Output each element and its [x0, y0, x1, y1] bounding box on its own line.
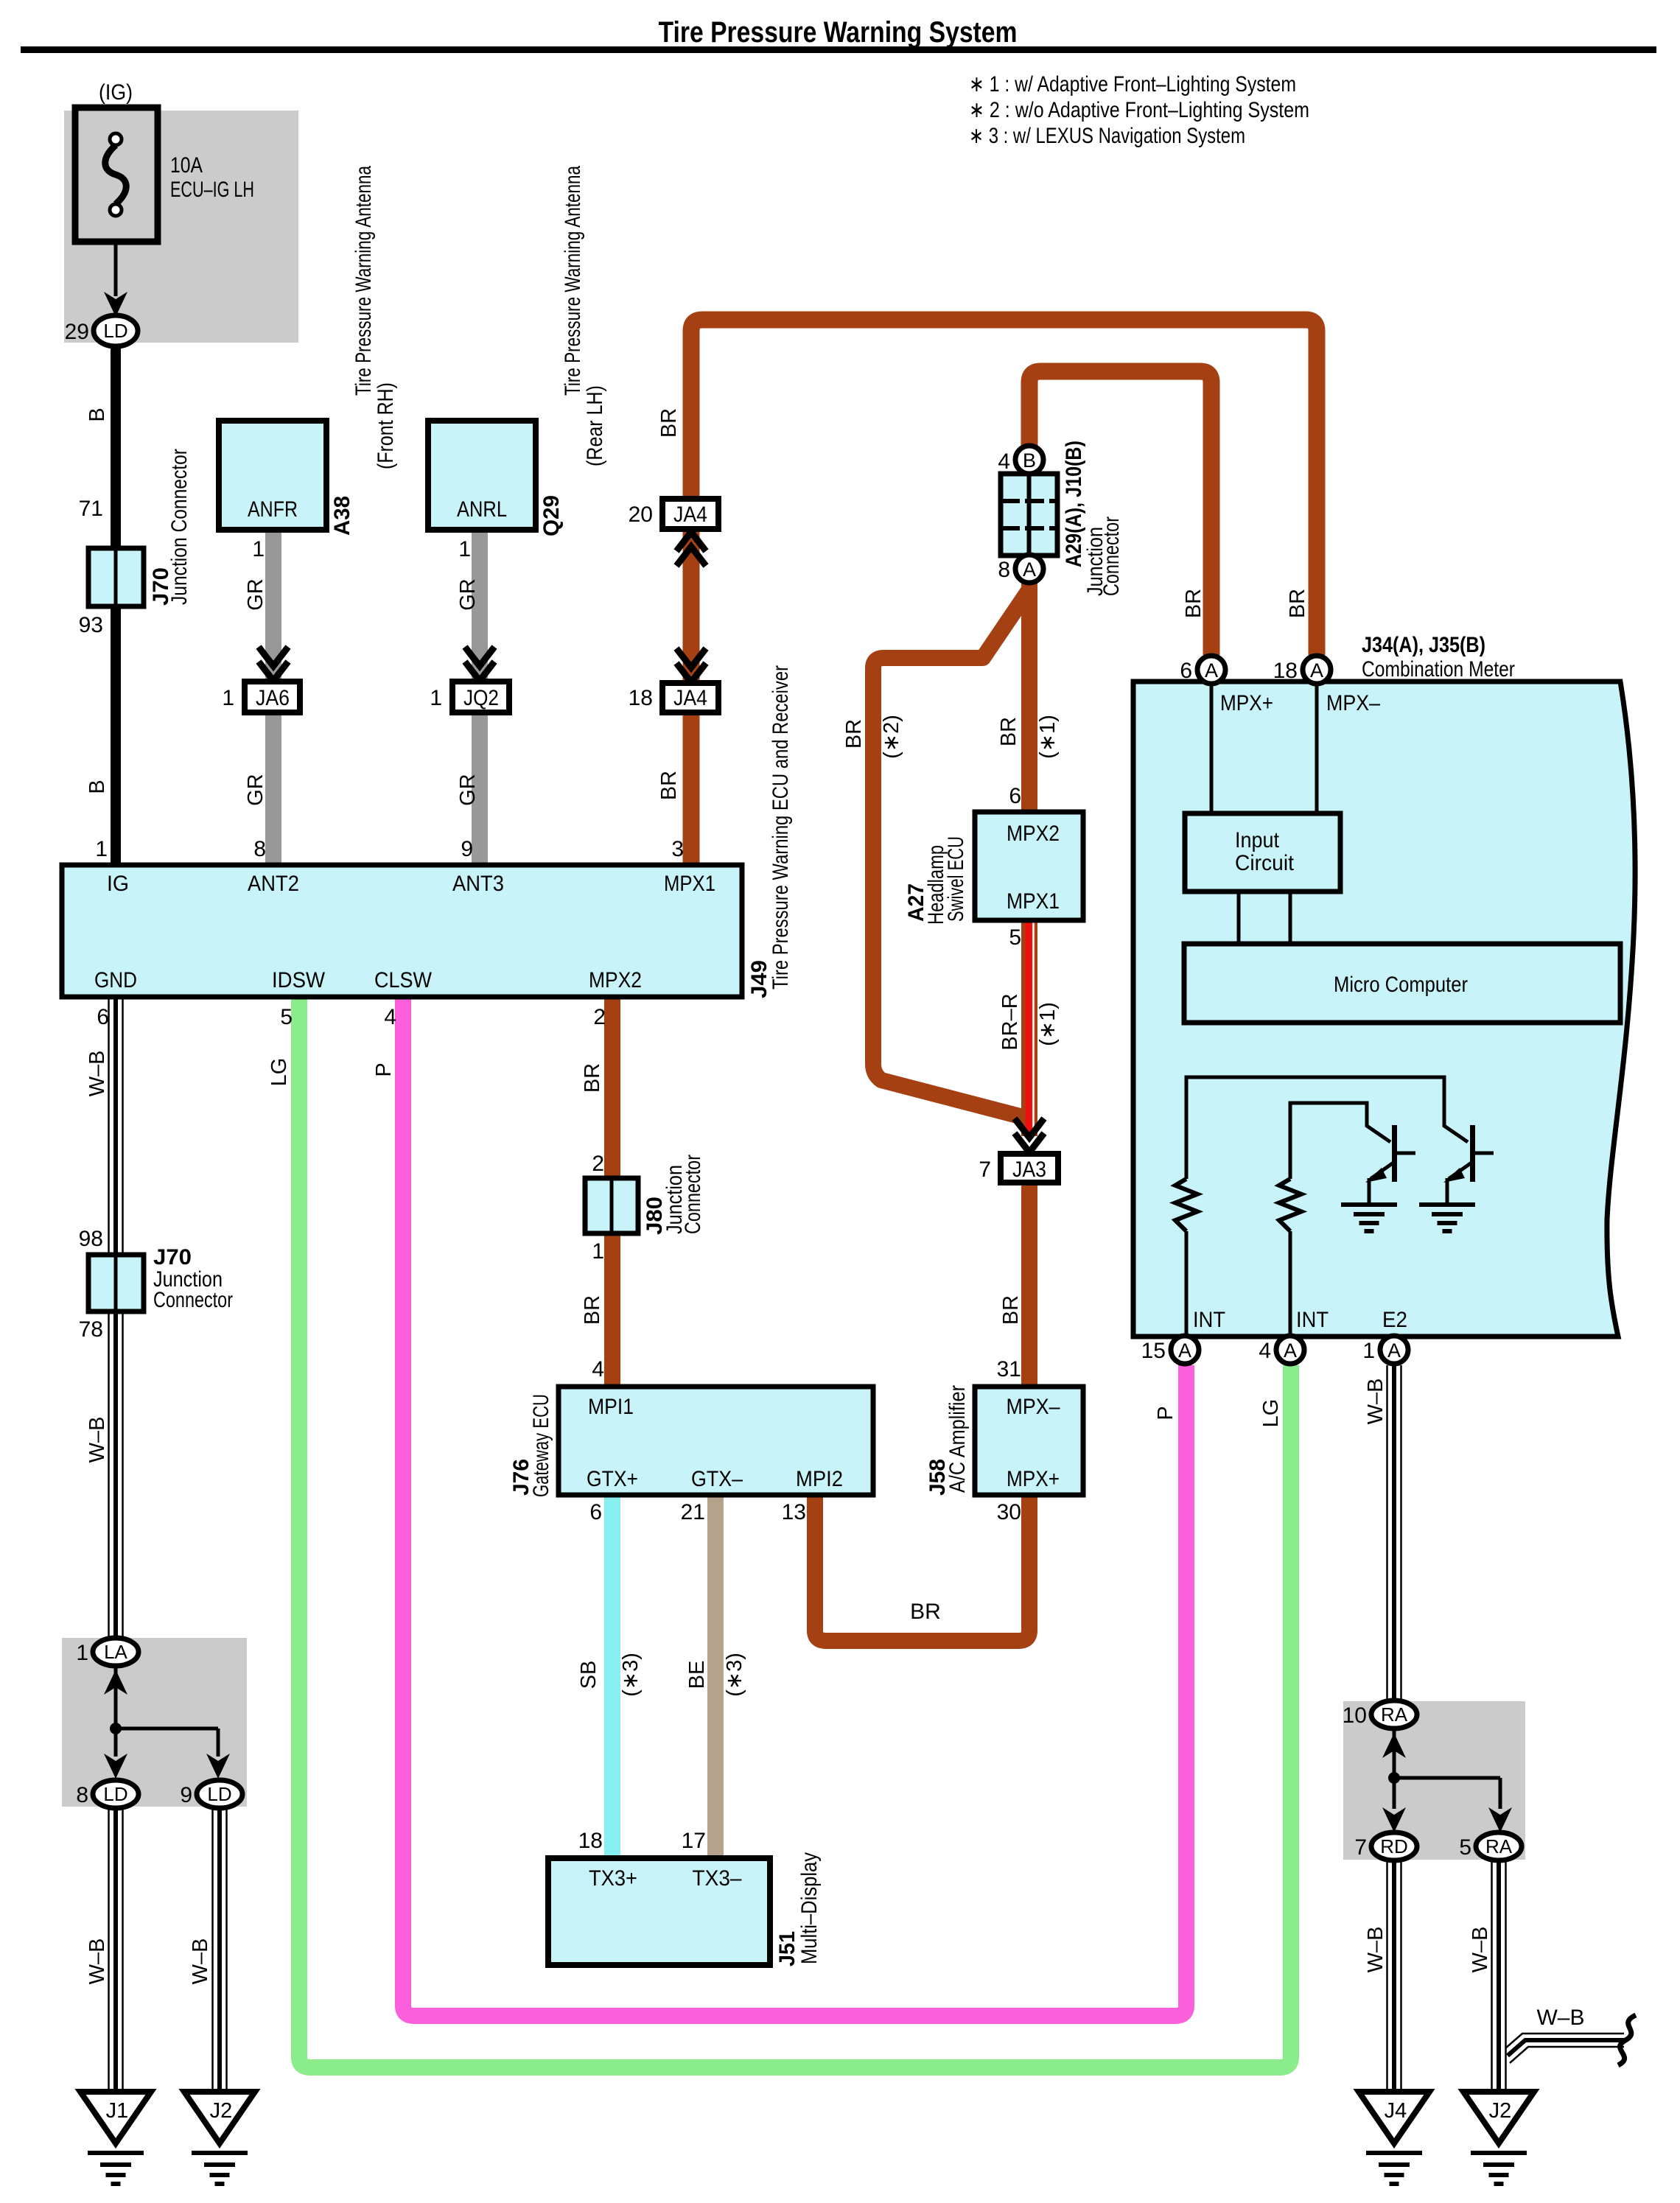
- ground symbol under J4: [1366, 2151, 1422, 2155]
- svg-text:(IG): (IG): [99, 80, 133, 105]
- svg-text:1: 1: [252, 537, 265, 561]
- svg-text:E2: E2: [1382, 1308, 1407, 1332]
- arrow down into RA5: [1488, 1807, 1512, 1832]
- svg-text:8: 8: [76, 1783, 88, 1807]
- svg-text:J34(A), J35(B): J34(A), J35(B): [1362, 633, 1485, 657]
- junction chevrons out of JA4 20: [676, 547, 706, 566]
- svg-text:30: 30: [997, 1500, 1021, 1524]
- svg-text:GTX–: GTX–: [691, 1467, 743, 1491]
- transistor Q2 (right): [1470, 1125, 1475, 1182]
- svg-text:MPX+: MPX+: [1220, 691, 1273, 715]
- splice terminal LD9 oval: [197, 1780, 242, 1808]
- svg-text:W–B: W–B: [85, 1417, 109, 1463]
- svg-text:TX3+: TX3+: [589, 1866, 637, 1891]
- splice line down to RA5: [1499, 1778, 1502, 1809]
- svg-text:Connector: Connector: [153, 1288, 233, 1312]
- connector JA4 pin 18 box: [662, 683, 718, 712]
- junction connector J70 upper box: [88, 548, 144, 606]
- svg-text:6: 6: [589, 1500, 602, 1524]
- svg-text:GR: GR: [244, 774, 267, 806]
- svg-text:1: 1: [458, 537, 471, 561]
- svg-text:1: 1: [1362, 1339, 1375, 1363]
- svg-text:∗ 2 : w/o Adaptive Front–Light: ∗ 2 : w/o Adaptive Front–Lighting System: [969, 98, 1309, 122]
- svg-text:Tire Pressure Warning Antenna: Tire Pressure Warning Antenna: [351, 166, 376, 396]
- svg-text:(∗3): (∗3): [619, 1653, 643, 1697]
- arrow up below RA10: [1382, 1733, 1406, 1758]
- svg-text:4: 4: [1259, 1339, 1271, 1363]
- svg-text:A: A: [1310, 659, 1323, 682]
- svg-text:31: 31: [997, 1357, 1021, 1381]
- micro computer box: [1184, 944, 1620, 1023]
- wire SB (*3) J76 GTX+ to J51 TX3+: [604, 1495, 620, 1858]
- wire BR-R (*1) from A27 MPX1 pin 5 to JA3: [1021, 920, 1037, 1136]
- resistor R2 (INT pull): [1279, 1179, 1301, 1231]
- svg-text:P: P: [372, 1062, 396, 1076]
- svg-text:BR: BR: [1286, 589, 1309, 618]
- ground inside meter (Q2 emitter): [1419, 1202, 1475, 1207]
- svg-text:∗ 3 : w/ LEXUS Navigation Syst: ∗ 3 : w/ LEXUS Navigation System: [969, 124, 1245, 148]
- ground symbol under J2 right: [1471, 2151, 1527, 2155]
- ECU J49 Tire Pressure Warning ECU and Receiver box: [62, 865, 742, 997]
- svg-text:J4: J4: [1385, 2099, 1407, 2123]
- svg-text:MPX1: MPX1: [664, 872, 715, 896]
- svg-text:W–B: W–B: [1364, 1379, 1387, 1425]
- svg-text:3: 3: [671, 837, 684, 861]
- wire W-B stub branch to right with break: [1505, 2034, 1624, 2048]
- svg-text:MPX+: MPX+: [1007, 1467, 1060, 1491]
- svg-text:INT: INT: [1193, 1308, 1225, 1332]
- svg-text:J70: J70: [153, 1245, 192, 1269]
- wire GR antenna ANRL to J49 ANT3: [472, 530, 488, 865]
- ground point J2 triangle: [184, 2092, 255, 2143]
- wire W-B splice LD8 to ground J1: [108, 1807, 110, 2093]
- svg-text:JA4: JA4: [673, 502, 707, 527]
- connector JQ2 box: [452, 682, 509, 712]
- svg-text:GR: GR: [456, 578, 480, 611]
- wire W-B splice LD9 to ground J2: [211, 1807, 214, 2093]
- splice junction node dot right: [1388, 1772, 1400, 1784]
- svg-text:RA: RA: [1381, 1703, 1408, 1726]
- junction connector A29(A) J10(B) grid box: [1001, 474, 1057, 556]
- wire BR J49 MPX2 pin 2 to J76 MPI1 pin 4: [604, 997, 620, 1387]
- junction connector J80 box: [585, 1178, 638, 1233]
- meter internal lead MPX- to input circuit: [1315, 682, 1319, 813]
- wire BR JA3 to J58 MPX- pin 31: [1021, 1183, 1037, 1387]
- splice line down to LD8: [114, 1729, 118, 1757]
- ground point J1 triangle: [80, 2092, 151, 2143]
- svg-text:∗ 1 : w/ Adaptive Front–Lighti: ∗ 1 : w/ Adaptive Front–Lighting System: [969, 72, 1296, 97]
- svg-text:JA3: JA3: [1012, 1157, 1046, 1182]
- wire W-B J49 GND to splice LA: [108, 997, 110, 1640]
- svg-text:IG: IG: [107, 872, 129, 896]
- svg-text:BR–R: BR–R: [998, 993, 1022, 1050]
- arrow up into LA: [104, 1670, 127, 1695]
- ground symbol under J2: [192, 2151, 248, 2155]
- svg-text:Combination Meter: Combination Meter: [1362, 657, 1515, 682]
- splice line down to LD9: [217, 1729, 220, 1757]
- arrow into terminal 29 LD: [104, 292, 127, 317]
- svg-text:J51: J51: [775, 1931, 799, 1966]
- meter pin circle A1: [1380, 1336, 1408, 1364]
- wire P J49 CLSW to combination meter INT pin 15: [403, 997, 1186, 2016]
- svg-text:18: 18: [629, 686, 653, 710]
- svg-text:(∗1): (∗1): [1036, 1002, 1060, 1046]
- svg-text:BR: BR: [657, 408, 681, 438]
- wire W-B splice RD7 to ground J4: [1386, 1860, 1388, 2093]
- input circuit box: [1185, 813, 1340, 892]
- svg-text:18: 18: [578, 1829, 603, 1853]
- ECU A27 Headlamp Swivel ECU box: [975, 812, 1083, 920]
- title underline rule: [21, 46, 1656, 53]
- svg-text:BR: BR: [657, 771, 681, 800]
- wire BR (*2) bypass around A27: [873, 589, 1029, 1118]
- svg-text:10: 10: [1343, 1703, 1367, 1728]
- svg-text:BR: BR: [581, 1063, 604, 1093]
- junction connector A circle pin 8: [1015, 555, 1043, 583]
- svg-text:A: A: [1023, 558, 1036, 581]
- svg-text:1: 1: [95, 837, 108, 861]
- svg-text:BE: BE: [685, 1661, 709, 1689]
- junction chevrons into JA3: [1015, 1118, 1044, 1138]
- svg-text:Tire Pressure Warning ECU and: Tire Pressure Warning ECU and Receiver: [769, 665, 793, 990]
- meter internal wire resistor2 to INT: [1289, 1231, 1292, 1337]
- svg-text:BR: BR: [842, 719, 866, 749]
- svg-text:ANRL: ANRL: [457, 497, 507, 522]
- meter pin circle A6: [1197, 656, 1225, 684]
- splice terminal RD7 oval: [1371, 1832, 1417, 1860]
- svg-text:6: 6: [1009, 784, 1021, 808]
- svg-text:17: 17: [682, 1829, 706, 1853]
- wire B black from fuse LD to J49 IG: [111, 345, 121, 865]
- svg-text:29: 29: [65, 320, 89, 344]
- svg-text:Tire Pressure Warning System: Tire Pressure Warning System: [659, 16, 1018, 49]
- svg-text:Connector: Connector: [1099, 516, 1124, 596]
- splice junction node dot: [110, 1723, 122, 1734]
- svg-text:A: A: [1178, 1339, 1191, 1362]
- wire from fuse to terminal 29: [114, 242, 118, 296]
- svg-text:9: 9: [180, 1783, 192, 1807]
- meter pin circle A4: [1276, 1336, 1304, 1364]
- svg-text:5: 5: [1459, 1835, 1471, 1860]
- svg-text:6: 6: [97, 1005, 109, 1029]
- svg-text:93: 93: [79, 613, 103, 637]
- svg-text:BR: BR: [999, 1295, 1023, 1325]
- svg-text:A/C Amplifier: A/C Amplifier: [945, 1385, 970, 1493]
- svg-text:Micro Computer: Micro Computer: [1334, 973, 1468, 997]
- wire GR antenna ANFR to J49 ANT2: [265, 530, 281, 865]
- svg-text:MPX–: MPX–: [1007, 1395, 1060, 1419]
- junction chevrons into JQ2: [465, 647, 494, 666]
- svg-text:1: 1: [222, 686, 234, 710]
- svg-text:(Rear LH): (Rear LH): [583, 385, 607, 466]
- svg-text:TX3–: TX3–: [693, 1866, 742, 1891]
- svg-text:1: 1: [430, 686, 442, 710]
- svg-text:1: 1: [592, 1239, 604, 1264]
- svg-text:LA: LA: [104, 1641, 127, 1663]
- ECU J58 A/C Amplifier box: [975, 1387, 1083, 1495]
- svg-text:5: 5: [1009, 925, 1021, 950]
- svg-text:Gateway ECU: Gateway ECU: [529, 1394, 553, 1497]
- svg-text:6: 6: [1180, 659, 1192, 683]
- display J51 Multi-Display box: [548, 1858, 770, 1965]
- svg-text:GND: GND: [94, 968, 137, 992]
- meter internal lead MPX+ to input circuit: [1210, 682, 1214, 813]
- svg-text:W–B: W–B: [85, 1938, 109, 1985]
- left ground-splice block background (grey): [62, 1638, 247, 1807]
- ground inside meter (Q1 emitter): [1341, 1202, 1397, 1207]
- svg-text:Input: Input: [1235, 828, 1280, 852]
- svg-text:A38: A38: [330, 496, 354, 536]
- svg-text:BR: BR: [910, 1600, 941, 1624]
- splice terminal RA10 oval: [1371, 1701, 1417, 1729]
- svg-text:21: 21: [681, 1500, 705, 1524]
- svg-text:15: 15: [1141, 1339, 1166, 1363]
- arrow down into RD7: [1382, 1807, 1406, 1832]
- svg-text:INT: INT: [1296, 1308, 1329, 1332]
- svg-text:7: 7: [979, 1157, 991, 1182]
- svg-text:2: 2: [592, 1152, 604, 1176]
- svg-text:B: B: [85, 407, 109, 421]
- svg-text:A: A: [1284, 1339, 1297, 1362]
- meter internal wire resistor1 to INT: [1185, 1231, 1189, 1337]
- svg-text:18: 18: [1273, 659, 1298, 683]
- svg-text:B: B: [85, 780, 109, 794]
- fuse block background (grey): [64, 111, 298, 343]
- junction connector B circle pin 4: [1015, 446, 1043, 474]
- wire BE (*3) J76 GTX- to J51 TX3-: [707, 1495, 724, 1858]
- svg-text:Junction Connector: Junction Connector: [167, 449, 192, 605]
- arrow down into LD9: [206, 1754, 230, 1779]
- svg-text:MPX2: MPX2: [1007, 822, 1060, 846]
- svg-text:78: 78: [79, 1317, 103, 1342]
- antenna A38 ANFR box: [219, 421, 326, 530]
- svg-text:GR: GR: [244, 578, 267, 611]
- fuse 10A ECU-IG LH symbol: [75, 108, 158, 242]
- wire W-B meter E2 to splice RA10: [1386, 1365, 1388, 1703]
- svg-text:Connector: Connector: [681, 1155, 705, 1234]
- svg-text:4: 4: [998, 449, 1010, 474]
- splice line junction to RA5 branch: [1394, 1776, 1500, 1780]
- svg-text:RD: RD: [1380, 1835, 1408, 1857]
- wire W-B splice RA5 to ground J2 right: [1491, 1860, 1493, 2093]
- svg-text:13: 13: [782, 1500, 806, 1524]
- arrow down into LD8: [104, 1754, 127, 1779]
- svg-text:7: 7: [1354, 1835, 1367, 1860]
- svg-text:Tire Pressure Warning Antenna: Tire Pressure Warning Antenna: [561, 166, 585, 396]
- svg-text:(Front RH): (Front RH): [374, 382, 398, 469]
- splice terminal LA oval: [93, 1638, 139, 1666]
- svg-text:Swivel ECU: Swivel ECU: [944, 836, 968, 922]
- svg-text:A: A: [1205, 659, 1218, 682]
- splice terminal LD8 oval: [93, 1780, 139, 1808]
- wire BR (*1) from A29 pin 8A down to A27 MPX2 pin 6: [1021, 582, 1037, 812]
- meter internal wire to resistor 2 and left transistor: [1290, 1103, 1390, 1179]
- terminal LD oval (fuse block pin 29): [94, 315, 138, 346]
- wire BR J58 MPX+ pin 30 to J76 MPI2 pin 13: [815, 1495, 1029, 1641]
- wire LG J49 IDSW to combination meter INT pin 4: [299, 997, 1291, 2067]
- svg-text:BR: BR: [1182, 589, 1205, 618]
- wire BR J49 MPX1 up over to combination meter pin 18: [691, 320, 1317, 865]
- svg-text:8: 8: [998, 558, 1010, 582]
- svg-text:LG: LG: [267, 1058, 291, 1087]
- svg-text:B: B: [1023, 449, 1036, 472]
- splice line RA10 to junction: [1393, 1728, 1396, 1778]
- svg-text:(∗2): (∗2): [880, 715, 903, 759]
- svg-text:GTX+: GTX+: [587, 1467, 638, 1491]
- svg-text:MPX2: MPX2: [589, 968, 642, 992]
- splice line LA to junction: [114, 1666, 118, 1729]
- svg-text:W–B: W–B: [1469, 1927, 1492, 1973]
- svg-text:10A: 10A: [170, 153, 203, 178]
- svg-text:RA: RA: [1485, 1835, 1513, 1857]
- svg-text:MPI1: MPI1: [588, 1395, 634, 1419]
- svg-text:(∗3): (∗3): [723, 1653, 746, 1697]
- svg-text:LD: LD: [207, 1783, 231, 1805]
- input to micro computer leads: [1237, 892, 1241, 944]
- antenna Q29 ANRL box: [428, 421, 536, 530]
- ECU J76 Gateway ECU box: [559, 1387, 873, 1495]
- svg-text:JA4: JA4: [673, 686, 707, 710]
- transistor Q1 (left): [1392, 1125, 1397, 1182]
- svg-text:(∗1): (∗1): [1036, 715, 1060, 759]
- meter pin circle A15: [1171, 1336, 1199, 1364]
- svg-text:5: 5: [280, 1005, 293, 1029]
- svg-text:9: 9: [461, 837, 473, 861]
- ground point J4 triangle: [1359, 2092, 1429, 2143]
- svg-text:W–B: W–B: [85, 1051, 109, 1097]
- svg-text:MPI2: MPI2: [796, 1467, 843, 1491]
- svg-text:W–B: W–B: [1364, 1927, 1387, 1973]
- svg-text:2: 2: [593, 1005, 606, 1029]
- connector JA4 pin 20 box: [662, 499, 718, 529]
- svg-text:W–B: W–B: [1536, 2006, 1584, 2030]
- svg-text:8: 8: [253, 837, 266, 861]
- wire BR junction connector B branch to combination meter pin 6: [1029, 371, 1211, 655]
- splice line junction to LD9 branch: [116, 1727, 218, 1731]
- junction chevrons into JA6: [259, 647, 288, 666]
- svg-text:MPX1: MPX1: [1007, 889, 1060, 914]
- svg-text:98: 98: [79, 1227, 103, 1251]
- svg-text:LG: LG: [1259, 1399, 1283, 1428]
- svg-text:SB: SB: [577, 1661, 601, 1689]
- svg-text:20: 20: [629, 502, 653, 527]
- svg-text:A: A: [1387, 1339, 1401, 1362]
- meter pin circle A18: [1303, 656, 1331, 684]
- ground point J2 right triangle: [1463, 2092, 1534, 2143]
- svg-text:CLSW: CLSW: [374, 968, 433, 992]
- svg-text:MPX–: MPX–: [1326, 691, 1380, 715]
- junction chevrons into JA4 18: [676, 648, 706, 668]
- svg-text:J2: J2: [210, 2099, 233, 2123]
- resistor R1 (INT pull): [1175, 1179, 1197, 1231]
- svg-text:ANT2: ANT2: [248, 872, 299, 896]
- svg-text:4: 4: [384, 1005, 396, 1029]
- svg-text:JA6: JA6: [256, 686, 290, 710]
- svg-text:LD: LD: [103, 1783, 127, 1805]
- ground symbol under J1: [88, 2151, 144, 2155]
- svg-text:LD: LD: [103, 320, 127, 342]
- splice terminal RA5 oval: [1476, 1832, 1522, 1860]
- svg-text:ECU–IG LH: ECU–IG LH: [170, 178, 254, 202]
- svg-text:Circuit: Circuit: [1235, 851, 1295, 875]
- svg-text:Multi–Display: Multi–Display: [797, 1852, 822, 1964]
- svg-text:4: 4: [592, 1357, 604, 1381]
- connector JA6 box: [245, 682, 300, 712]
- connector JA3 box: [1001, 1154, 1058, 1183]
- svg-text:BR: BR: [581, 1295, 604, 1325]
- splice line down to RD7: [1393, 1778, 1396, 1809]
- svg-text:W–B: W–B: [189, 1938, 212, 1985]
- junction connector J70 lower box: [88, 1255, 144, 1311]
- svg-text:J2: J2: [1489, 2099, 1512, 2123]
- svg-text:JQ2: JQ2: [463, 686, 499, 710]
- combination meter J34(A) J35(B) box: [1133, 682, 1635, 1337]
- svg-text:1: 1: [76, 1641, 88, 1665]
- svg-text:Q29: Q29: [539, 495, 564, 536]
- svg-text:IDSW: IDSW: [272, 968, 326, 992]
- meter internal wire to resistor 1 and right transistor: [1186, 1077, 1468, 1179]
- svg-text:ANFR: ANFR: [248, 497, 298, 522]
- right ground-splice block background (grey): [1343, 1701, 1525, 1860]
- svg-text:71: 71: [79, 497, 103, 521]
- svg-text:GR: GR: [456, 774, 480, 806]
- svg-text:BR: BR: [997, 717, 1021, 746]
- svg-text:ANT3: ANT3: [452, 872, 504, 896]
- svg-text:P: P: [1154, 1406, 1177, 1420]
- svg-text:J1: J1: [106, 2099, 129, 2123]
